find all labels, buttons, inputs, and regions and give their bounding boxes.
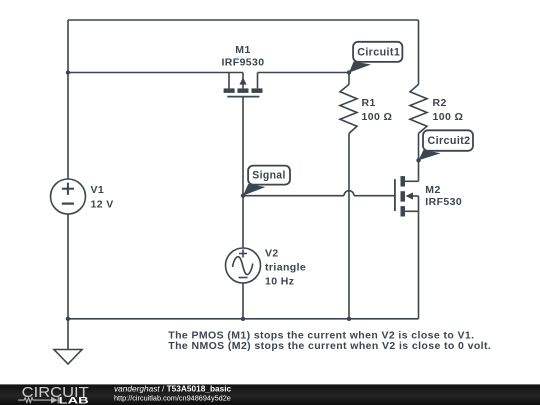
wire top-right drop to R2	[418, 20, 420, 84]
node Signal	[241, 194, 245, 198]
footer credit text	[114, 384, 232, 403]
node Circuit2	[416, 158, 420, 162]
wire M1 drain rail to Circuit1 node	[258, 72, 350, 74]
svg-text:vanderghast / T53A5018_basic: vanderghast / T53A5018_basic	[114, 384, 232, 394]
wire M1 gate down to Signal node	[242, 97, 244, 196]
svg-text:Circuit2: Circuit2	[428, 135, 471, 147]
svg-text:100 Ω: 100 Ω	[362, 111, 393, 123]
svg-text:R2: R2	[433, 97, 447, 109]
svg-text:M1: M1	[235, 44, 250, 56]
transistor M2 (NMOS IRF530)	[395, 176, 419, 216]
voltage source V2	[226, 196, 261, 319]
svg-text:IRF530: IRF530	[425, 196, 462, 208]
node Circuit1	[347, 70, 351, 74]
svg-text:Signal: Signal	[252, 170, 286, 182]
flag label Signal	[243, 166, 290, 196]
flag label Circuit2	[419, 130, 474, 160]
svg-text:Circuit1: Circuit1	[357, 46, 400, 58]
svg-text:M2: M2	[425, 184, 440, 196]
svg-text:V2: V2	[265, 248, 279, 260]
wire left vertical upper (V1+ branch)	[67, 20, 69, 179]
svg-text:10 Hz: 10 Hz	[265, 276, 294, 288]
wire M2 source down to bottom rail	[418, 211, 420, 318]
wire bottom rail	[68, 318, 419, 320]
svg-text:triangle: triangle	[265, 262, 306, 274]
resistor R1	[340, 73, 357, 319]
node ground junction	[66, 317, 70, 321]
svg-text:V1: V1	[91, 184, 105, 196]
wire V1 minus to ground node	[67, 214, 69, 319]
node junction V1/M1 rail	[66, 70, 70, 74]
svg-text:LAB: LAB	[59, 396, 90, 405]
node V2 bottom junction	[241, 317, 245, 321]
svg-text:http://circuitlab.com/cn948694: http://circuitlab.com/cn948694y5d2e	[114, 393, 231, 402]
flag label Circuit1	[349, 42, 402, 73]
wire Signal to M2 gate (with hop over R1)	[243, 191, 395, 196]
wire second rail to M1 source	[68, 72, 243, 74]
wire ground stub	[67, 319, 69, 350]
svg-text:R1: R1	[362, 97, 376, 109]
svg-text:IRF9530: IRF9530	[221, 57, 264, 69]
ground symbol	[54, 350, 82, 365]
wire Circuit2 node to M2 drain	[418, 160, 420, 181]
svg-text:The NMOS (M2) stops the curren: The NMOS (M2) stops the current when V2 …	[168, 340, 491, 352]
wire top rail (V1+ to R2)	[68, 19, 419, 21]
voltage source V1	[51, 179, 86, 214]
node R1 bottom junction	[347, 317, 351, 321]
resistor R2	[410, 84, 427, 160]
svg-text:100 Ω: 100 Ω	[433, 111, 464, 123]
svg-text:12 V: 12 V	[91, 199, 114, 211]
footer bar	[0, 384, 540, 405]
transistor M1 (PMOS IRF9530)	[224, 73, 263, 97]
CircuitLab logo	[18, 385, 90, 405]
